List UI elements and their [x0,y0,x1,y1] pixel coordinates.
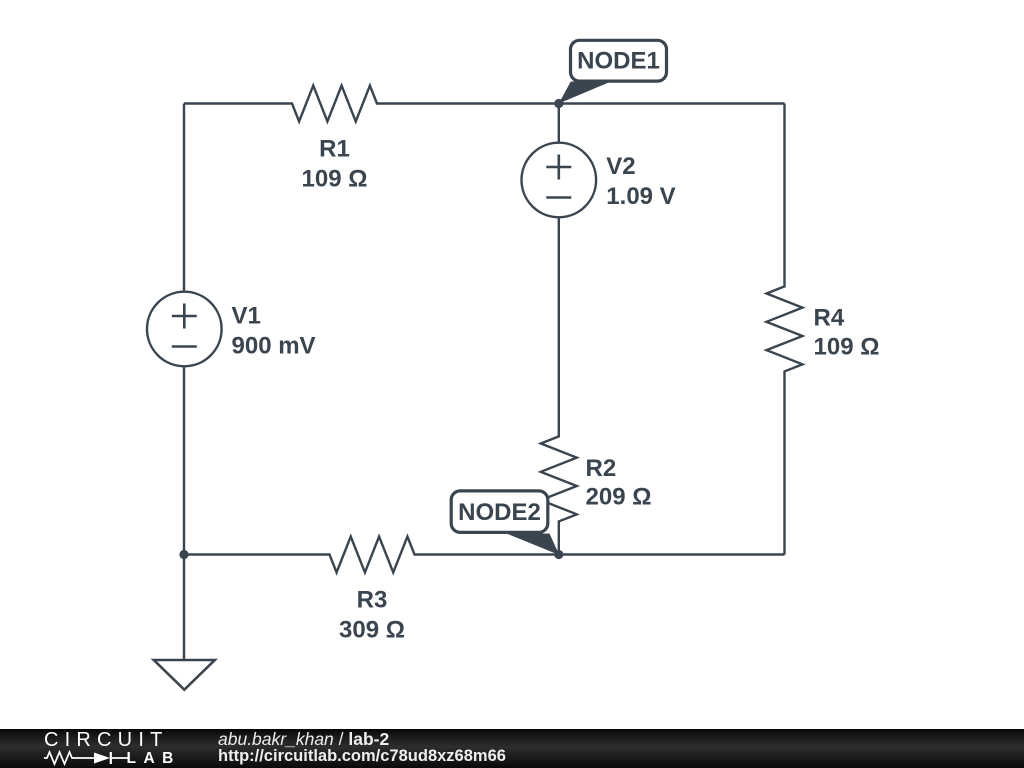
svg-text:109 Ω: 109 Ω [302,166,368,193]
svg-text:NODE2: NODE2 [458,499,541,526]
svg-text:900 mV: 900 mV [232,333,316,360]
svg-text:R2: R2 [586,455,617,482]
svg-text:NODE1: NODE1 [577,48,660,75]
svg-text:R1: R1 [319,136,350,163]
svg-text:R3: R3 [357,587,388,614]
svg-text:R4: R4 [814,305,845,332]
svg-text:309 Ω: 309 Ω [339,617,405,644]
svg-text:109 Ω: 109 Ω [814,334,880,361]
svg-text:209 Ω: 209 Ω [586,484,652,511]
svg-text:V1: V1 [232,303,261,330]
svg-text:1.09 V: 1.09 V [606,183,675,210]
svg-text:V2: V2 [606,153,635,180]
